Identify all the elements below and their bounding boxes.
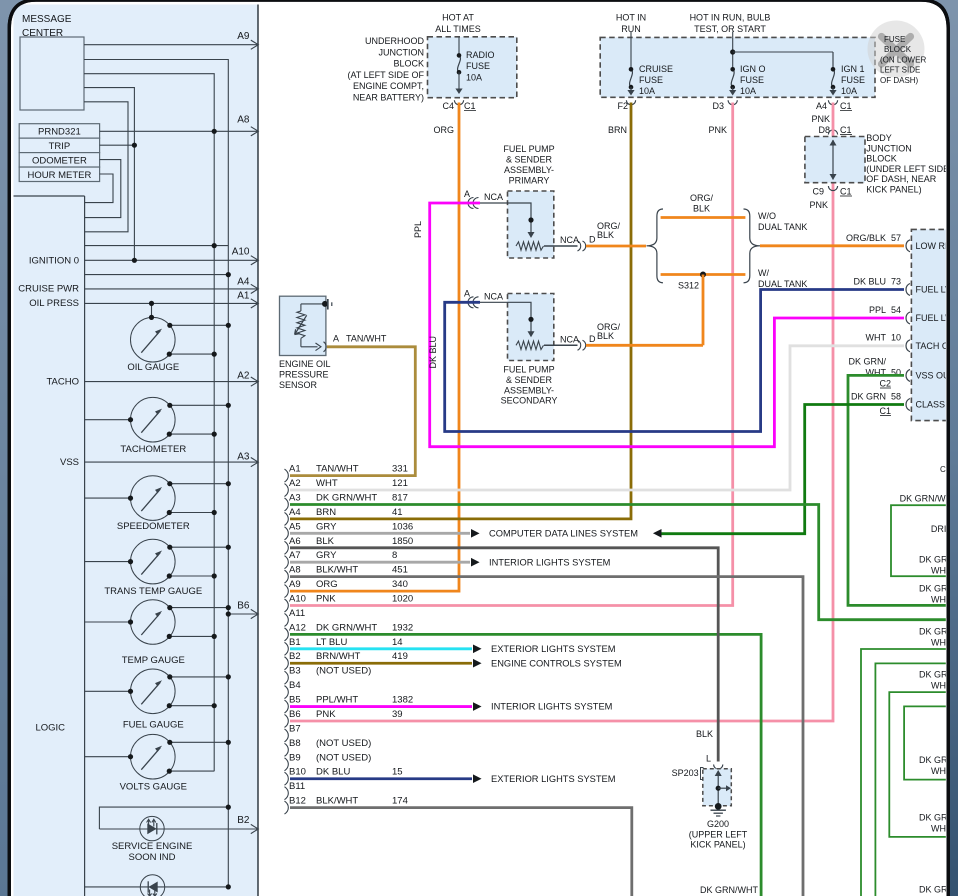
svg-text:FUSE: FUSE — [884, 35, 905, 44]
svg-text:A3: A3 — [289, 492, 301, 503]
svg-text:B9: B9 — [289, 752, 301, 763]
svg-text:W/: W/ — [758, 268, 769, 278]
svg-text:A4: A4 — [289, 507, 301, 518]
svg-text:FUEL PUMP: FUEL PUMP — [503, 365, 554, 375]
svg-text:& SENDER: & SENDER — [506, 155, 553, 165]
svg-text:1932: 1932 — [392, 622, 413, 633]
svg-text:EXTERIOR LIGHTS SYSTEM: EXTERIOR LIGHTS SYSTEM — [491, 644, 616, 654]
svg-text:A1: A1 — [237, 291, 250, 302]
svg-text:174: 174 — [392, 796, 408, 807]
svg-text:HOT IN: HOT IN — [616, 13, 646, 23]
svg-text:DK BLU: DK BLU — [428, 336, 438, 369]
svg-text:DK BLU: DK BLU — [316, 767, 350, 778]
svg-text:121: 121 — [392, 478, 408, 489]
svg-text:SECONDARY: SECONDARY — [501, 396, 558, 406]
svg-text:C1: C1 — [879, 406, 891, 416]
svg-text:14: 14 — [392, 637, 403, 648]
svg-text:ORG/: ORG/ — [690, 193, 714, 203]
svg-text:PNK: PNK — [316, 594, 336, 605]
svg-text:B2: B2 — [289, 651, 301, 662]
svg-text:A8: A8 — [289, 565, 301, 576]
svg-text:BRN/WHT: BRN/WHT — [316, 651, 361, 662]
svg-text:58: 58 — [891, 392, 901, 402]
svg-text:C9: C9 — [812, 187, 824, 197]
svg-text:340: 340 — [392, 579, 408, 590]
svg-text:C: C — [940, 465, 946, 474]
svg-text:C1: C1 — [840, 101, 852, 111]
svg-text:B2: B2 — [237, 815, 250, 826]
svg-text:FUSE: FUSE — [466, 61, 490, 71]
svg-text:A9: A9 — [289, 579, 301, 590]
svg-text:DK GRN/WHT: DK GRN/WHT — [700, 885, 758, 895]
svg-text:A: A — [464, 288, 470, 298]
svg-text:BLK: BLK — [597, 230, 614, 240]
svg-text:IGNITION 0: IGNITION 0 — [29, 255, 79, 266]
svg-text:DK BLU: DK BLU — [853, 277, 886, 287]
svg-text:BLOCK: BLOCK — [866, 154, 897, 164]
svg-text:10A: 10A — [639, 86, 655, 96]
svg-text:D3: D3 — [712, 101, 724, 111]
svg-text:TACHOMETER: TACHOMETER — [120, 444, 186, 455]
svg-text:OIL GAUGE: OIL GAUGE — [127, 362, 179, 373]
svg-text:(NOT USED): (NOT USED) — [316, 752, 371, 763]
svg-text:CRUISE: CRUISE — [639, 64, 673, 74]
svg-text:(UPPER LEFT: (UPPER LEFT — [689, 829, 748, 839]
svg-text:FUSE: FUSE — [740, 75, 764, 85]
svg-text:B5: B5 — [289, 695, 301, 706]
svg-text:PPL: PPL — [413, 221, 423, 238]
svg-text:INTERIOR LIGHTS SYSTEM: INTERIOR LIGHTS SYSTEM — [491, 702, 612, 712]
svg-text:451: 451 — [392, 565, 408, 576]
svg-text:HOT IN RUN, BULB: HOT IN RUN, BULB — [690, 13, 771, 23]
svg-text:A6: A6 — [289, 536, 301, 547]
svg-text:PNK: PNK — [708, 125, 727, 135]
svg-text:DK GRN: DK GRN — [851, 392, 886, 402]
svg-text:INTERIOR LIGHTS SYSTEM: INTERIOR LIGHTS SYSTEM — [489, 557, 610, 567]
svg-text:A11: A11 — [289, 608, 305, 619]
svg-text:TRIP: TRIP — [49, 141, 71, 152]
svg-text:A8: A8 — [237, 115, 250, 126]
svg-text:SOON IND: SOON IND — [129, 852, 176, 863]
svg-text:TAN/WHT: TAN/WHT — [316, 464, 359, 475]
svg-text:ALL TIMES: ALL TIMES — [435, 24, 481, 34]
svg-text:A2: A2 — [237, 371, 250, 382]
svg-text:BRN: BRN — [608, 125, 627, 135]
svg-text:B6: B6 — [237, 601, 250, 612]
svg-text:C1: C1 — [464, 101, 476, 111]
svg-text:15: 15 — [392, 767, 403, 778]
svg-text:C1: C1 — [840, 125, 852, 135]
svg-text:SPEEDOMETER: SPEEDOMETER — [117, 521, 190, 532]
svg-text:LT BLU: LT BLU — [316, 637, 347, 648]
svg-text:1036: 1036 — [392, 521, 413, 532]
svg-text:8: 8 — [392, 550, 397, 561]
svg-text:DK GRN/: DK GRN/ — [848, 357, 886, 367]
svg-text:JUNCTION: JUNCTION — [866, 143, 912, 153]
svg-text:73: 73 — [891, 277, 901, 287]
svg-text:BLOCK: BLOCK — [393, 59, 424, 69]
svg-text:57: 57 — [891, 233, 901, 243]
svg-text:D: D — [589, 235, 596, 245]
svg-text:PNK: PNK — [316, 709, 336, 720]
svg-text:PPL: PPL — [869, 305, 886, 315]
svg-text:DK GRN/WHT: DK GRN/WHT — [316, 492, 377, 503]
svg-text:TRANS TEMP GAUGE: TRANS TEMP GAUGE — [104, 586, 202, 597]
svg-text:10A: 10A — [466, 72, 482, 82]
svg-text:PRIMARY: PRIMARY — [509, 176, 550, 186]
svg-text:BLK: BLK — [316, 536, 335, 547]
svg-text:LOGIC: LOGIC — [35, 723, 65, 734]
svg-text:VSS OU: VSS OU — [916, 370, 950, 380]
svg-text:C4: C4 — [442, 101, 454, 111]
svg-text:W/O: W/O — [758, 211, 776, 221]
svg-text:B12: B12 — [289, 796, 306, 807]
svg-text:TACHO: TACHO — [46, 376, 79, 387]
svg-text:B8: B8 — [289, 738, 301, 749]
svg-text:NCA: NCA — [484, 192, 503, 202]
svg-text:DK GRN/WHT: DK GRN/WHT — [316, 622, 377, 633]
svg-text:1850: 1850 — [392, 536, 413, 547]
svg-text:41: 41 — [392, 507, 403, 518]
svg-text:BLK/WHT: BLK/WHT — [316, 565, 358, 576]
svg-text:1020: 1020 — [392, 594, 413, 605]
svg-text:PRND321: PRND321 — [38, 127, 81, 138]
svg-text:BLOCK: BLOCK — [884, 45, 912, 54]
svg-text:ORG: ORG — [433, 125, 454, 135]
svg-text:UNDERHOOD: UNDERHOOD — [365, 36, 425, 46]
svg-text:F2: F2 — [617, 101, 628, 111]
svg-text:OF DASH): OF DASH) — [880, 76, 919, 85]
svg-text:EXTERIOR LIGHTS SYSTEM: EXTERIOR LIGHTS SYSTEM — [491, 774, 616, 784]
svg-text:A1: A1 — [289, 464, 301, 475]
svg-text:A4: A4 — [237, 276, 250, 287]
svg-text:GRY: GRY — [316, 550, 337, 561]
svg-text:ENGINE CONTROLS SYSTEM: ENGINE CONTROLS SYSTEM — [491, 658, 622, 668]
svg-text:B3: B3 — [289, 666, 301, 677]
svg-text:WHT: WHT — [316, 478, 338, 489]
svg-text:10: 10 — [891, 333, 901, 343]
svg-text:(ON LOWER: (ON LOWER — [880, 56, 926, 65]
svg-text:B7: B7 — [289, 723, 301, 734]
svg-text:C2: C2 — [879, 379, 891, 389]
svg-text:(AT LEFT SIDE OF: (AT LEFT SIDE OF — [347, 70, 424, 80]
svg-text:NEAR BATTERY): NEAR BATTERY) — [353, 93, 424, 103]
svg-text:C1: C1 — [840, 187, 852, 197]
svg-text:817: 817 — [392, 492, 408, 503]
svg-text:B6: B6 — [289, 709, 301, 720]
svg-text:PRESSURE: PRESSURE — [279, 369, 329, 379]
svg-text:OF DASH, NEAR: OF DASH, NEAR — [866, 174, 937, 184]
svg-text:B10: B10 — [289, 767, 306, 778]
svg-text:JUNCTION: JUNCTION — [379, 47, 425, 57]
svg-text:TEST, OR START: TEST, OR START — [694, 24, 766, 34]
svg-text:FUEL PUMP: FUEL PUMP — [503, 144, 554, 154]
svg-text:KICK PANEL): KICK PANEL) — [866, 185, 921, 195]
svg-text:VOLTS GAUGE: VOLTS GAUGE — [120, 782, 187, 793]
svg-text:A7: A7 — [289, 550, 301, 561]
svg-text:& SENDER: & SENDER — [506, 375, 553, 385]
svg-text:VSS: VSS — [60, 457, 79, 468]
svg-text:A12: A12 — [289, 622, 306, 633]
svg-text:NCA: NCA — [560, 334, 579, 344]
svg-text:BRN: BRN — [316, 507, 336, 518]
svg-text:PPL/WHT: PPL/WHT — [316, 695, 358, 706]
svg-text:A3: A3 — [237, 451, 250, 462]
svg-text:BLK: BLK — [597, 331, 614, 341]
svg-text:PNK: PNK — [811, 114, 830, 124]
svg-text:39: 39 — [392, 709, 403, 720]
svg-text:COMPUTER DATA LINES SYSTEM: COMPUTER DATA LINES SYSTEM — [489, 529, 638, 539]
svg-text:HOT AT: HOT AT — [442, 13, 474, 23]
svg-text:CRUISE PWR: CRUISE PWR — [18, 284, 79, 295]
svg-text:1382: 1382 — [392, 695, 413, 706]
svg-text:TEMP GAUGE: TEMP GAUGE — [122, 655, 185, 666]
svg-text:SENSOR: SENSOR — [279, 380, 318, 390]
svg-text:FUSE: FUSE — [639, 75, 663, 85]
svg-text:WHT: WHT — [866, 333, 887, 343]
svg-text:ORG/BLK: ORG/BLK — [846, 233, 886, 243]
svg-text:BLK/WHT: BLK/WHT — [316, 796, 358, 807]
svg-text:54: 54 — [891, 305, 901, 315]
svg-text:GRY: GRY — [316, 521, 337, 532]
svg-text:SERVICE ENGINE: SERVICE ENGINE — [112, 841, 193, 852]
svg-text:(NOT USED): (NOT USED) — [316, 666, 371, 677]
svg-text:NCA: NCA — [484, 291, 503, 301]
svg-text:ORG: ORG — [316, 579, 338, 590]
svg-text:S312: S312 — [678, 281, 699, 291]
svg-text:ODOMETER: ODOMETER — [32, 156, 87, 167]
svg-text:PNK: PNK — [809, 200, 828, 210]
svg-text:FUEL LV: FUEL LV — [916, 285, 952, 295]
svg-text:B1: B1 — [289, 637, 301, 648]
svg-text:A2: A2 — [289, 478, 301, 489]
svg-text:FUSE: FUSE — [841, 75, 865, 85]
svg-text:A: A — [333, 334, 339, 344]
svg-text:IGN O: IGN O — [740, 64, 766, 74]
svg-text:ASSEMBLY-: ASSEMBLY- — [504, 385, 554, 395]
svg-text:10A: 10A — [841, 86, 857, 96]
svg-text:D: D — [589, 334, 596, 344]
svg-text:HOUR METER: HOUR METER — [27, 170, 91, 181]
svg-text:OIL PRESS: OIL PRESS — [29, 298, 79, 309]
svg-text:331: 331 — [392, 464, 408, 475]
svg-text:A4: A4 — [816, 101, 827, 111]
svg-text:FUEL GAUGE: FUEL GAUGE — [123, 720, 184, 731]
svg-text:A9: A9 — [237, 31, 250, 42]
svg-text:G200: G200 — [707, 819, 729, 829]
svg-text:TAN/WHT: TAN/WHT — [346, 334, 387, 344]
svg-text:A10: A10 — [289, 594, 306, 605]
svg-text:10A: 10A — [740, 86, 756, 96]
svg-text:BODY: BODY — [866, 133, 892, 143]
svg-text:BLK: BLK — [693, 204, 710, 214]
svg-text:TACH O: TACH O — [916, 341, 949, 351]
svg-text:A: A — [464, 189, 470, 199]
svg-text:FUEL LV: FUEL LV — [916, 313, 952, 323]
svg-text:419: 419 — [392, 651, 408, 662]
svg-text:DUAL TANK: DUAL TANK — [758, 279, 807, 289]
svg-text:IGN 1: IGN 1 — [841, 64, 865, 74]
svg-text:DUAL TANK: DUAL TANK — [758, 222, 807, 232]
svg-text:L: L — [706, 754, 711, 764]
svg-text:(UNDER LEFT SIDE: (UNDER LEFT SIDE — [866, 164, 949, 174]
svg-text:MESSAGE: MESSAGE — [22, 14, 72, 25]
svg-text:BLK: BLK — [696, 729, 713, 739]
svg-text:NCA: NCA — [560, 235, 579, 245]
svg-text:SP203: SP203 — [672, 768, 699, 778]
svg-text:ASSEMBLY-: ASSEMBLY- — [504, 165, 554, 175]
svg-text:ENGINE COMPT,: ENGINE COMPT, — [353, 81, 424, 91]
svg-text:A5: A5 — [289, 521, 301, 532]
svg-text:A10: A10 — [232, 247, 250, 258]
svg-text:B11: B11 — [289, 781, 305, 792]
svg-text:LEFT SIDE: LEFT SIDE — [880, 66, 920, 75]
svg-text:ENGINE OIL: ENGINE OIL — [279, 359, 331, 369]
svg-text:B4: B4 — [289, 680, 301, 691]
svg-text:RADIO: RADIO — [466, 50, 495, 60]
svg-text:KICK PANEL): KICK PANEL) — [690, 840, 745, 850]
svg-text:(NOT USED): (NOT USED) — [316, 738, 371, 749]
